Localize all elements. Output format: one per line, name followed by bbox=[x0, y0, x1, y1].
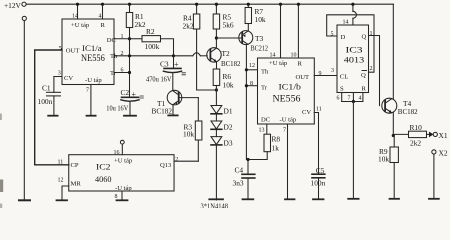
svg-text:10u 16V: 10u 16V bbox=[106, 103, 129, 112]
svg-text:R: R bbox=[362, 86, 367, 93]
diode D3 bbox=[211, 137, 222, 145]
svg-text:IC1/b: IC1/b bbox=[279, 81, 302, 91]
resistor R5 bbox=[215, 4, 217, 14]
svg-text:MR: MR bbox=[71, 181, 82, 188]
svg-text:BC182: BC182 bbox=[152, 107, 173, 116]
wire T1 emitter to ground bbox=[172, 105, 174, 116]
svg-text:2k2: 2k2 bbox=[183, 22, 194, 31]
svg-text:5: 5 bbox=[331, 32, 334, 38]
svg-text:C3: C3 bbox=[160, 60, 169, 69]
svg-text:CP: CP bbox=[71, 162, 79, 169]
wire Th pin2 bbox=[114, 55, 193, 57]
svg-text:+12V: +12V bbox=[4, 1, 22, 10]
svg-text:2k2: 2k2 bbox=[410, 139, 421, 148]
svg-text:7: 7 bbox=[348, 96, 351, 102]
svg-text:Q: Q bbox=[361, 72, 366, 79]
wire node to diodes bbox=[215, 90, 217, 106]
svg-text:16: 16 bbox=[114, 150, 120, 156]
counter U4 IC2 box bbox=[69, 155, 174, 191]
wire OUT pin5 IC1/a bbox=[35, 50, 69, 165]
ground IC3 bbox=[348, 198, 358, 200]
svg-text:R8: R8 bbox=[272, 135, 281, 144]
svg-text:4060: 4060 bbox=[95, 174, 112, 184]
resistor R10 bbox=[393, 133, 408, 135]
svg-text:1: 1 bbox=[370, 31, 373, 37]
ground pin7 IC1/a bbox=[87, 115, 96, 117]
svg-text:+: + bbox=[174, 60, 179, 69]
svg-text:5k6: 5k6 bbox=[223, 21, 234, 30]
svg-text:Q13: Q13 bbox=[160, 162, 172, 169]
transistor Q4 T4 bbox=[382, 98, 397, 113]
svg-text:14: 14 bbox=[343, 20, 349, 26]
svg-text:14: 14 bbox=[72, 14, 78, 20]
svg-text:+U táp: +U táp bbox=[269, 60, 288, 67]
diode D2 bbox=[211, 121, 222, 129]
wire D3 to ground bbox=[215, 145, 217, 200]
svg-text:BC212: BC212 bbox=[251, 43, 269, 52]
label Qbar overbar bbox=[362, 70, 368, 72]
wire 0V rail down left side bbox=[23, 21, 25, 201]
wire pin13 to R8 bbox=[266, 124, 268, 134]
svg-text:OUT: OUT bbox=[296, 74, 310, 81]
svg-text:2: 2 bbox=[121, 51, 124, 57]
wire OUT pin9 IC1/b to CL IC3 bbox=[314, 75, 337, 77]
svg-text:7: 7 bbox=[86, 88, 89, 94]
wire Tr pin8 IC1/b bbox=[246, 85, 257, 87]
svg-text:C4: C4 bbox=[235, 166, 244, 175]
wire T3 base to T2 collector node bbox=[216, 37, 242, 39]
svg-text:X2: X2 bbox=[439, 149, 448, 158]
op-amp U2 IC1/b box bbox=[258, 58, 315, 124]
wire pin7 IC1/a to ground bbox=[90, 85, 92, 116]
svg-text:IC3: IC3 bbox=[346, 45, 363, 55]
svg-text:2: 2 bbox=[175, 157, 178, 163]
wire C3 to T1 collector bbox=[172, 73, 174, 90]
capacitor C3 bbox=[173, 56, 175, 69]
svg-text:NE556: NE556 bbox=[273, 95, 301, 105]
svg-text:R: R bbox=[298, 61, 303, 68]
svg-text:8: 8 bbox=[250, 81, 253, 87]
svg-text:D1: D1 bbox=[224, 107, 233, 116]
wire node DC/Th/Tr vertical bbox=[129, 39, 131, 98]
ground C5 bbox=[313, 198, 324, 200]
wire C1 to ground bbox=[53, 96, 55, 116]
flip-flop U3 IC3 box bbox=[337, 25, 369, 93]
wire right rail to T4 collector bbox=[392, 4, 394, 99]
resistor R1 bbox=[129, 4, 131, 12]
svg-text:6: 6 bbox=[337, 96, 340, 102]
scan artifact marks left edge bbox=[0, 180, 3, 193]
resistor R9 bbox=[393, 136, 395, 148]
wire rail to pin14 IC3 with hop bbox=[352, 4, 354, 11]
svg-text:D: D bbox=[341, 34, 346, 41]
wire top +12V rail bbox=[26, 3, 393, 5]
svg-text:NE556: NE556 bbox=[81, 54, 105, 64]
svg-text:Tr: Tr bbox=[110, 70, 117, 77]
op-amp U1 IC1/a box bbox=[62, 19, 114, 85]
svg-text:10k: 10k bbox=[378, 155, 389, 164]
svg-text:DC: DC bbox=[107, 37, 117, 44]
svg-text:100n: 100n bbox=[311, 179, 326, 188]
svg-text:12: 12 bbox=[249, 63, 255, 69]
diode D1 bbox=[211, 106, 222, 114]
svg-text:11: 11 bbox=[58, 160, 64, 166]
node X1 arrow terminal bbox=[429, 132, 433, 138]
wire Q pin1 to T4 base bbox=[369, 36, 380, 106]
svg-text:6: 6 bbox=[121, 68, 124, 74]
wire R5 to T2 collector bbox=[215, 29, 217, 48]
ground pin8 IC2 bbox=[117, 199, 128, 201]
svg-text:14: 14 bbox=[270, 53, 276, 59]
svg-text:D3: D3 bbox=[224, 139, 233, 148]
wire MR pin12 to ground bbox=[62, 186, 69, 200]
svg-text:Th: Th bbox=[110, 53, 118, 60]
svg-text:3: 3 bbox=[331, 68, 334, 74]
wire T3 collector down bbox=[246, 45, 248, 160]
svg-text:IC1/a: IC1/a bbox=[82, 43, 102, 53]
capacitor C4 bbox=[242, 173, 255, 175]
svg-text:13: 13 bbox=[259, 128, 265, 134]
capacitor C5 bbox=[312, 173, 325, 175]
resistor R3 bbox=[197, 98, 199, 121]
ground X2 bbox=[429, 198, 439, 200]
svg-text:-U táp: -U táp bbox=[280, 117, 297, 124]
svg-text:+U táp: +U táp bbox=[71, 22, 90, 29]
svg-text:10k: 10k bbox=[183, 130, 194, 139]
resistor R4 bbox=[196, 4, 198, 14]
ground MR bbox=[57, 199, 68, 201]
ground C2 bbox=[124, 115, 136, 117]
wire pin14 IC1/a bbox=[77, 4, 79, 19]
ground pin7 IC1/b bbox=[285, 198, 295, 200]
svg-text:3: 3 bbox=[58, 71, 61, 77]
node X2 terminal bbox=[432, 150, 436, 154]
svg-text:T2: T2 bbox=[222, 49, 231, 58]
wire pin10 IC1/b bbox=[297, 4, 299, 58]
svg-text:5: 5 bbox=[59, 46, 62, 52]
ground T1 bbox=[168, 114, 177, 116]
svg-text:8: 8 bbox=[115, 194, 118, 200]
wire pin7 IC1/b to ground bbox=[287, 124, 289, 199]
wire CV pin11 to C5 bbox=[314, 113, 318, 175]
wire R4 to node D1 bbox=[197, 29, 217, 90]
wire T2 emitter to R6 bbox=[216, 62, 218, 70]
wire DC pin1 bbox=[114, 38, 130, 40]
svg-text:CV: CV bbox=[64, 75, 73, 82]
svg-text:+: + bbox=[132, 90, 137, 99]
svg-text:IC2: IC2 bbox=[96, 162, 111, 172]
wire IC3 pins 6 7 4 to ground bbox=[342, 93, 363, 102]
transistor Q2 T2 bbox=[207, 48, 221, 62]
svg-text:4: 4 bbox=[359, 96, 362, 102]
node +12V terminal bbox=[22, 2, 26, 6]
svg-text:R10: R10 bbox=[410, 123, 423, 132]
transistor Q3 T3 bbox=[239, 31, 253, 45]
svg-text:DC: DC bbox=[261, 117, 271, 124]
wire Qbar to D loop bbox=[327, 15, 374, 72]
svg-text:1: 1 bbox=[121, 34, 124, 40]
svg-text:R: R bbox=[101, 22, 106, 29]
node 0V terminal bbox=[22, 16, 26, 20]
svg-text:2: 2 bbox=[370, 66, 373, 72]
svg-text:9: 9 bbox=[319, 71, 322, 77]
svg-text:4: 4 bbox=[99, 14, 102, 20]
svg-text:10k: 10k bbox=[255, 15, 266, 24]
capacitor C2 bbox=[122, 96, 139, 98]
wire pin14 IC1/b bbox=[280, 4, 282, 58]
wire Th pin12 IC1/b bbox=[246, 69, 257, 71]
ground R9 bbox=[390, 198, 400, 200]
svg-text:100n: 100n bbox=[38, 97, 53, 106]
svg-text:CL: CL bbox=[340, 74, 348, 81]
svg-text:1k: 1k bbox=[272, 144, 280, 153]
svg-text:470u 16V: 470u 16V bbox=[146, 74, 172, 83]
wire pin4 IC1/a bbox=[102, 4, 104, 19]
svg-text:-U táp: -U táp bbox=[85, 77, 102, 84]
ground diodes bbox=[209, 198, 223, 200]
svg-text:3*1N4148: 3*1N4148 bbox=[201, 201, 229, 208]
node junction rail pin4 bbox=[101, 3, 104, 6]
wire pin8 IC2 to ground bbox=[121, 191, 123, 200]
resistor R8 bbox=[264, 134, 271, 152]
svg-text:2k2: 2k2 bbox=[135, 20, 146, 29]
svg-text:Q: Q bbox=[362, 34, 367, 41]
svg-text:Tr: Tr bbox=[261, 85, 268, 92]
svg-text:100k: 100k bbox=[145, 42, 160, 51]
resistor R6 bbox=[213, 69, 220, 86]
svg-text:12: 12 bbox=[58, 178, 64, 184]
svg-text:C5: C5 bbox=[316, 166, 325, 175]
svg-text:10k: 10k bbox=[223, 81, 234, 90]
node IC2 pin16 terminal bbox=[120, 140, 124, 144]
svg-text:+U táp: +U táp bbox=[114, 158, 133, 165]
ground C4 bbox=[243, 198, 254, 200]
svg-text:X1: X1 bbox=[439, 131, 448, 140]
svg-text:7: 7 bbox=[283, 128, 286, 134]
transistor Q1 T1 bbox=[167, 90, 182, 105]
svg-text:OUT: OUT bbox=[66, 47, 80, 54]
svg-text:11: 11 bbox=[316, 107, 322, 113]
wire junction to C4 bbox=[247, 160, 249, 175]
svg-text:-U táp: -U táp bbox=[115, 185, 132, 192]
svg-text:3n3: 3n3 bbox=[233, 179, 244, 188]
svg-text:BC182: BC182 bbox=[398, 107, 418, 116]
capacitor C1 bbox=[47, 91, 61, 93]
svg-text:R2: R2 bbox=[146, 27, 155, 36]
wire hop over R4 lead bbox=[193, 53, 201, 56]
svg-text:T3: T3 bbox=[255, 34, 264, 43]
node junction rail pin14 bbox=[76, 3, 79, 6]
wire CV pin3 IC1/a bbox=[54, 77, 62, 93]
svg-text:D2: D2 bbox=[224, 123, 233, 132]
svg-text:Th: Th bbox=[261, 69, 269, 76]
svg-text:BC182: BC182 bbox=[221, 59, 241, 68]
svg-text:4013: 4013 bbox=[344, 54, 364, 64]
resistor R7 bbox=[247, 4, 249, 7]
svg-text:S: S bbox=[340, 86, 344, 93]
svg-text:10: 10 bbox=[291, 53, 297, 59]
ground C1 bbox=[48, 115, 57, 117]
wire Q13 pin2 to R3 bbox=[174, 160, 198, 162]
svg-text:C1: C1 bbox=[42, 84, 51, 93]
wire Tr pin6 bbox=[114, 72, 130, 74]
ground 0V rail bbox=[19, 199, 30, 201]
resistor R2 bbox=[130, 38, 143, 40]
svg-text:C2: C2 bbox=[121, 88, 130, 97]
svg-text:CV: CV bbox=[302, 109, 311, 116]
